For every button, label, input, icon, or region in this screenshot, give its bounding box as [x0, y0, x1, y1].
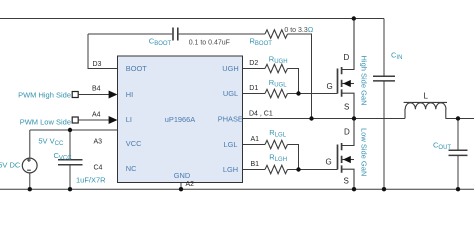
node low gate — [296, 167, 300, 171]
port square PWM High Side — [72, 92, 78, 98]
svg-text:VCC: VCC — [126, 139, 142, 148]
resistor R_UGH — [265, 64, 288, 72]
wire LI input — [79, 119, 110, 121]
svg-text:PHASE: PHASE — [218, 115, 243, 124]
svg-text:D3: D3 — [93, 61, 102, 68]
wire high-side gate — [288, 93, 338, 95]
wire UGL pin to R_UGL — [243, 93, 266, 95]
svg-text:A3: A3 — [94, 139, 103, 146]
node bootstrap to phase — [309, 116, 313, 120]
wire LGL pin to R_LGL — [243, 144, 266, 146]
svg-text:D2: D2 — [249, 60, 258, 67]
svg-text:D1: D1 — [249, 85, 258, 92]
svg-text:PWM High Side: PWM High Side — [18, 90, 71, 99]
svg-text:L: L — [424, 91, 429, 100]
svg-text:D: D — [344, 53, 350, 62]
svg-text:S: S — [344, 177, 349, 186]
node C_OUT output — [456, 116, 460, 120]
svg-text:LGL: LGL — [224, 140, 238, 149]
svg-text:G: G — [327, 82, 333, 91]
svg-text:uP1966A: uP1966A — [165, 115, 195, 124]
node VCC / C_VCC tap — [68, 128, 72, 132]
inductor L — [404, 102, 447, 118]
wire C_VCC lower lead — [69, 165, 71, 190]
svg-text:A4: A4 — [92, 112, 101, 119]
wire R_UGH down to gate node — [288, 69, 299, 94]
capacitor C_BOOT — [173, 28, 178, 41]
capacitor C_VCC — [58, 160, 83, 165]
resistor R_BOOT — [265, 30, 288, 38]
wire source bottom lead — [29, 173, 31, 189]
svg-text:BOOT: BOOT — [126, 64, 147, 73]
node top rail to high drain — [352, 16, 356, 20]
wire inductor to output edge — [446, 118, 474, 120]
svg-text:UGL: UGL — [223, 89, 238, 98]
wire R_BOOT down to phase node — [288, 34, 312, 119]
svg-text:LI: LI — [126, 115, 132, 124]
svg-text:0.1 to 0.47uF: 0.1 to 0.47uF — [189, 39, 230, 46]
svg-text:CBOOT: CBOOT — [149, 37, 172, 48]
svg-text:UGH: UGH — [222, 64, 238, 73]
svg-text:CIN: CIN — [391, 51, 402, 62]
svg-text:1uF/X7R: 1uF/X7R — [76, 175, 106, 184]
svg-text:RLGH: RLGH — [269, 152, 287, 163]
node low source ground — [352, 187, 356, 191]
svg-text:0 to 3.3Ω: 0 to 3.3Ω — [284, 25, 313, 34]
wire bootstrap to C_BOOT — [88, 33, 172, 35]
svg-text:High Side GaN: High Side GaN — [360, 56, 369, 106]
node GND pin ground — [179, 187, 183, 191]
svg-text:B4: B4 — [92, 86, 101, 93]
svg-text:RUGH: RUGH — [269, 54, 288, 65]
wire source top lead — [29, 130, 31, 158]
svg-text:GND: GND — [174, 171, 190, 180]
node C_VCC ground — [68, 187, 72, 191]
svg-text:HI: HI — [126, 90, 133, 99]
node C_OUT ground — [456, 187, 460, 191]
arrowhead HI — [109, 91, 118, 99]
wire C_OUT lower lead — [457, 155, 459, 189]
svg-text:B1: B1 — [251, 161, 260, 168]
svg-text:Low Side GaN: Low Side GaN — [360, 128, 369, 176]
wire PHASE to inductor — [243, 118, 406, 120]
svg-text:LGH: LGH — [223, 165, 238, 174]
svg-text:5V DC: 5V DC — [0, 161, 21, 170]
port square PWM Low Side — [72, 117, 78, 123]
arrowhead LI — [109, 116, 118, 124]
wire BOOT pin to bootstrap riser — [88, 34, 118, 69]
wire UGH pin to R_UGH — [243, 68, 266, 70]
transistor Q2 low-side GaN — [338, 119, 355, 190]
resistor R_LGL — [265, 140, 288, 148]
svg-text:A1: A1 — [251, 136, 260, 143]
capacitor C_IN — [373, 76, 395, 81]
wire 5V VCC feed — [30, 129, 118, 131]
resistor R_LGH — [265, 165, 288, 173]
voltage source 5V DC — [22, 158, 37, 173]
node phase FET junction — [352, 116, 356, 120]
wire ground rail — [0, 188, 474, 190]
resistor R_UGL — [265, 89, 288, 97]
svg-text:C4: C4 — [94, 165, 103, 172]
wire C_OUT upper lead — [457, 119, 459, 151]
svg-text:NC: NC — [126, 164, 137, 173]
transistor Q1 high-side GaN — [338, 19, 355, 119]
svg-text:5V VCC: 5V VCC — [38, 136, 64, 147]
svg-text:PWM Low Side: PWM Low Side — [20, 117, 71, 126]
svg-text:D4 , C1: D4 , C1 — [249, 111, 273, 118]
wire C_BOOT to R_BOOT — [179, 33, 265, 35]
svg-text:RBOOT: RBOOT — [250, 37, 273, 48]
wire C_IN upper lead — [383, 19, 385, 77]
svg-text:RLGL: RLGL — [269, 128, 286, 139]
svg-text:D: D — [344, 128, 350, 137]
svg-text:RUGL: RUGL — [269, 78, 287, 89]
wire low-side gate — [288, 169, 338, 171]
node high gate — [296, 91, 300, 95]
wire C_IN lower lead — [383, 81, 385, 189]
svg-text:G: G — [326, 157, 332, 166]
wire LGH pin to R_LGH — [243, 169, 266, 171]
wire top 5V input rail — [0, 18, 384, 20]
node source ground — [28, 187, 32, 191]
wire R_LGL down to low gate node — [288, 145, 299, 170]
svg-text:CVCC: CVCC — [54, 151, 73, 162]
svg-text:COUT: COUT — [433, 140, 451, 151]
wire C_VCC upper lead — [69, 130, 71, 160]
capacitor C_OUT — [449, 150, 468, 155]
IC U1 uP1966A body — [118, 56, 243, 183]
svg-text:S: S — [344, 103, 349, 112]
wire GND stub — [180, 183, 182, 190]
wire HI input — [79, 94, 110, 96]
node C_IN ground — [382, 187, 386, 191]
svg-text:A2: A2 — [186, 181, 195, 188]
